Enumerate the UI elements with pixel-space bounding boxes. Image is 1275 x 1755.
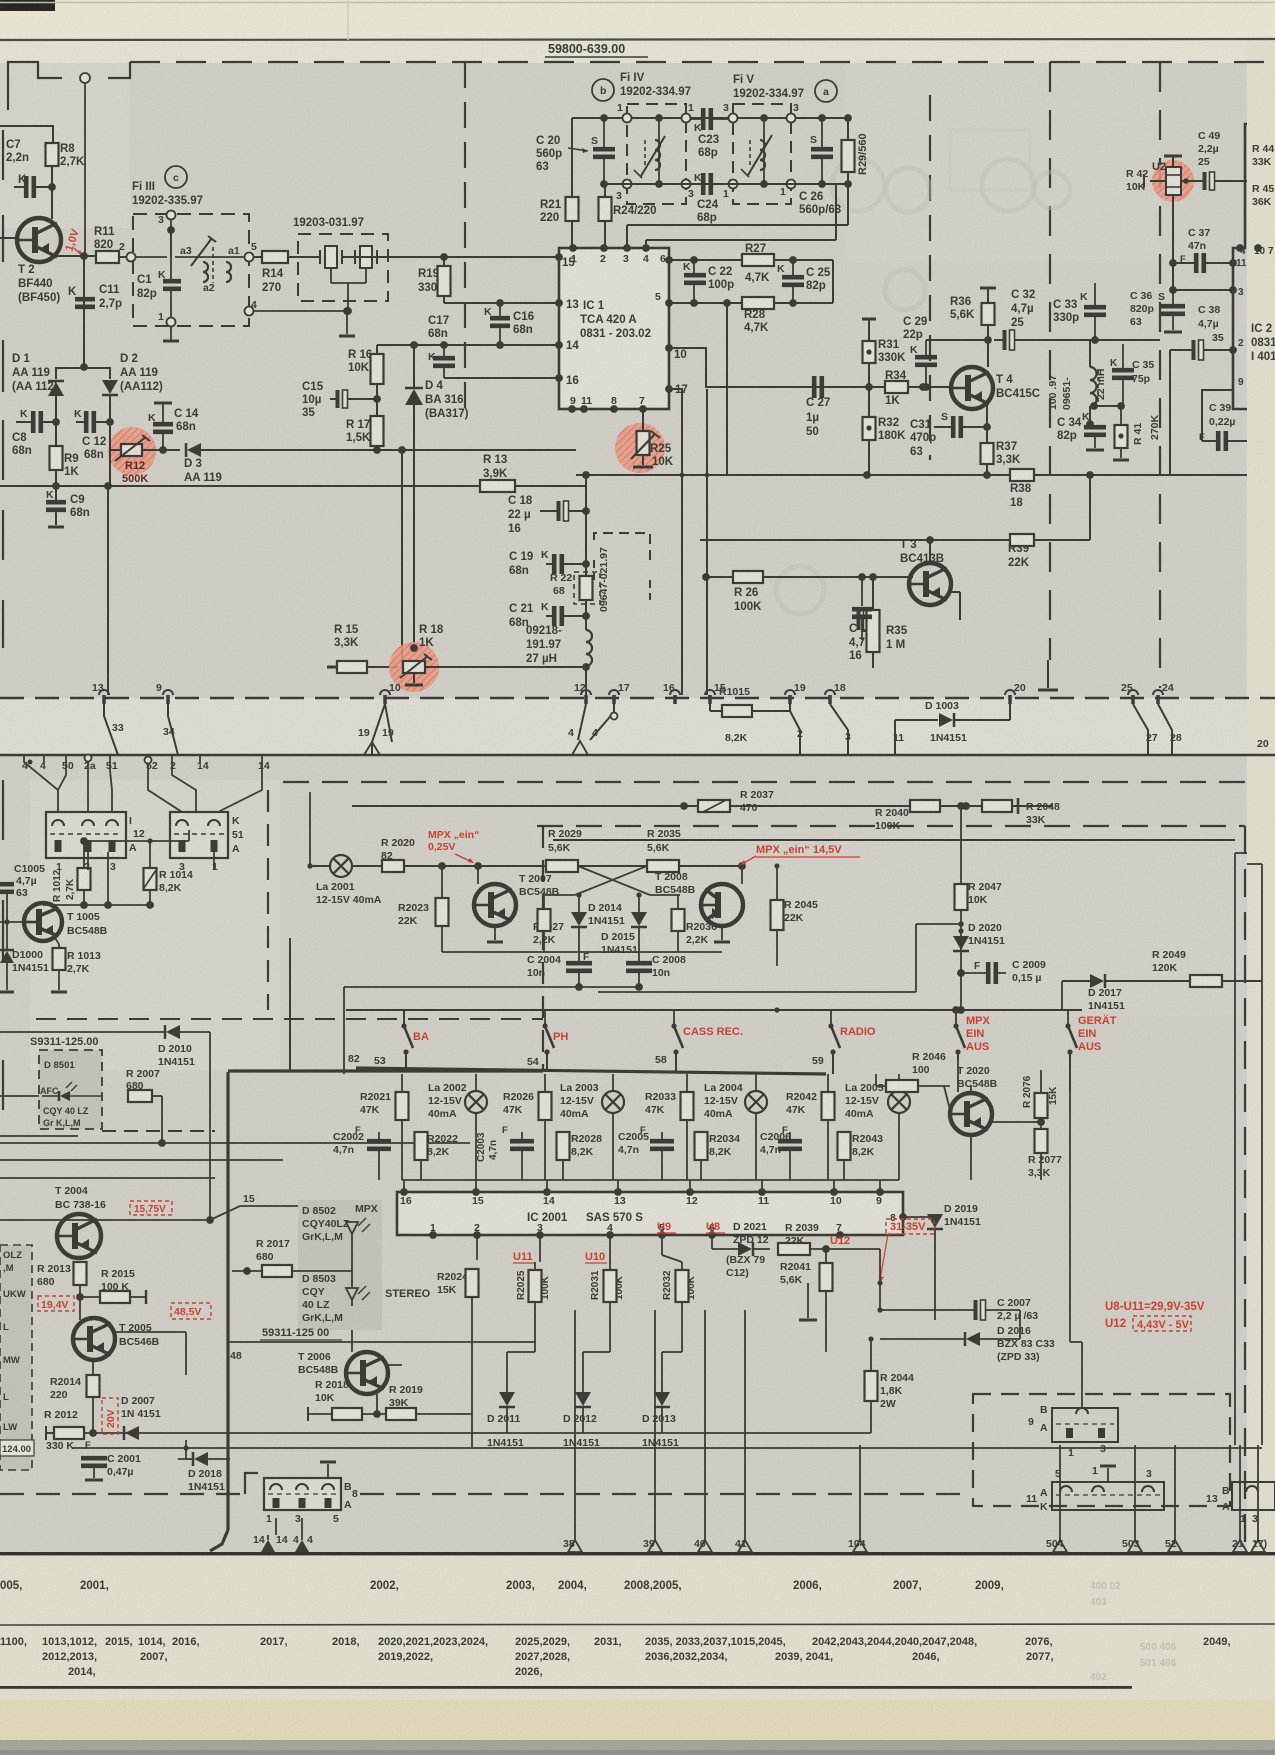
MPX bus down from R2037 node xyxy=(683,806,685,826)
filter Fi III dashed box xyxy=(133,214,249,326)
wire top bus y118 xyxy=(572,117,848,119)
wire R2020 bus feed xyxy=(245,865,247,867)
dashed separator x1050 xyxy=(1049,62,1051,660)
diode D 2011 xyxy=(499,1392,515,1406)
bottom thin line xyxy=(0,1624,1275,1625)
transistor T4 emitter column xyxy=(986,405,988,475)
terminal drop 21 xyxy=(1239,1445,1241,1540)
wires into drops xyxy=(574,1283,576,1310)
dashed box bottom right xyxy=(973,1394,1230,1506)
terminal 18 xyxy=(825,690,835,695)
dashed box coil 09218 xyxy=(594,533,650,563)
dashed separator x930 xyxy=(929,95,931,460)
wire y1342 xyxy=(228,1341,535,1343)
stereo dashed box top inner xyxy=(537,825,1245,827)
dashed line y1131 xyxy=(102,1130,215,1132)
terminal 24 xyxy=(1153,690,1163,695)
terminal drop 52 xyxy=(1174,1445,1176,1540)
terminal 17 xyxy=(609,690,619,695)
IC U2 right block xyxy=(1233,124,1247,409)
terminal 15 vertical fix xyxy=(706,475,708,695)
vertical x110 down xyxy=(109,422,111,486)
slant wires to connector 1 xyxy=(24,755,58,812)
diode D3 xyxy=(142,449,180,451)
resistor R37 xyxy=(981,443,994,464)
wire y450 to IC area xyxy=(402,449,576,451)
heavy bus vertical x228 xyxy=(226,1072,229,1530)
terminal drop 41 xyxy=(744,1310,746,1540)
wire pin7 down xyxy=(839,1235,841,1249)
terminal 12 xyxy=(581,690,591,695)
connector block I12A xyxy=(46,812,126,858)
vertical right columns xyxy=(1019,1310,1021,1339)
wire IC1 pin14 xyxy=(377,344,558,346)
IC U1 TCA420A xyxy=(559,248,669,409)
resistor R31 xyxy=(863,341,876,363)
resistor R36 xyxy=(980,287,996,290)
wire y486 long xyxy=(0,485,56,487)
red note 48,5V xyxy=(171,1303,211,1319)
schematic gray panel upper xyxy=(0,63,1247,698)
resistor R38 xyxy=(1010,469,1034,481)
optocoupler D8501 box xyxy=(39,1050,102,1129)
filter Fi V dashed box xyxy=(733,104,791,204)
T2020 vertical feeds xyxy=(957,1060,959,1093)
bus pin4 y240 xyxy=(645,240,647,248)
terminal 15 xyxy=(705,690,715,695)
terminal drop 104 xyxy=(859,1445,861,1540)
top dashed border xyxy=(130,61,1268,63)
C2009 connection fix xyxy=(961,972,988,974)
wire U2 down xyxy=(1172,195,1174,263)
vertical x1170 xyxy=(1169,350,1171,475)
vertical x727 R28 to wire475 xyxy=(726,303,728,475)
dashed bottom left section xyxy=(36,1018,543,1020)
terminal 13 xyxy=(99,690,109,695)
wire x352 down xyxy=(351,806,353,840)
left dashed page border xyxy=(2,130,4,180)
R35 top lead xyxy=(872,652,874,667)
diode D 2013 xyxy=(654,1392,670,1406)
resistor R24 xyxy=(599,197,612,221)
vertical x290 xyxy=(289,938,291,1070)
wire vertical x84 down to C11 xyxy=(83,256,85,367)
component U2 highlighted xyxy=(1152,160,1194,202)
ground pin T2020 column xyxy=(807,1283,809,1318)
resistor R8 xyxy=(46,143,59,166)
connector bus line y755 xyxy=(0,754,1275,757)
dashed bottom y1494 xyxy=(0,1493,240,1495)
potentiometer R18 highlighted xyxy=(389,642,439,692)
terminal 10 xyxy=(380,690,390,695)
wire IC1 pin16 xyxy=(444,377,558,379)
filter Fi V labels xyxy=(815,80,837,102)
switch BA feed xyxy=(403,1010,405,1026)
wire T2004 base y1220 xyxy=(0,1219,206,1221)
stereo left wiring xyxy=(0,1095,39,1097)
stereo dashed box top outer xyxy=(283,781,1245,783)
cross coupling wires xyxy=(578,866,650,895)
resistor R14 xyxy=(253,256,264,258)
left edge connector strip xyxy=(0,1245,32,1470)
bottom yellow band xyxy=(0,1700,1275,1755)
wire IC1 pin6 y260 xyxy=(669,259,742,261)
page fold line xyxy=(0,39,1275,40)
resistor R9 xyxy=(50,446,63,470)
resistor R29/560 xyxy=(842,140,855,172)
wire y475 long xyxy=(576,474,1247,476)
wire bottom right loop xyxy=(1090,474,1247,476)
long wire y1448 xyxy=(72,1447,1262,1449)
dashed separator x1160 xyxy=(1159,62,1161,688)
transistor T4 xyxy=(951,367,993,409)
bus wires stereo mid xyxy=(598,991,777,993)
terminal drop 504 xyxy=(1059,1445,1061,1540)
vertical x833 xyxy=(832,260,834,303)
filter Fi IV labels xyxy=(592,79,614,101)
Fi III pin4 wire xyxy=(253,310,347,312)
filter Fi IV dashed box xyxy=(627,104,686,204)
connector block bottom left xyxy=(245,1473,258,1494)
filter tap to ground xyxy=(330,268,332,283)
top black bar xyxy=(0,0,55,11)
resistor R32 xyxy=(863,417,876,440)
switch outputs down xyxy=(957,1060,959,1092)
terminal bar above U2 xyxy=(1164,155,1182,158)
vertical x1070 extension xyxy=(1069,1180,1071,1342)
terminal 25 xyxy=(1128,690,1138,695)
right cream margin xyxy=(1247,40,1275,1552)
terminal bar above R31 xyxy=(862,318,876,321)
IC U2001 SAS570S xyxy=(397,1192,903,1235)
resistor R28 xyxy=(742,297,774,309)
connector block K51A xyxy=(170,812,228,858)
terminal drop 503 xyxy=(1134,1445,1136,1540)
D8501 left wires xyxy=(0,1135,78,1137)
terminal 20 xyxy=(1005,690,1015,695)
long wire y1433 xyxy=(46,1432,871,1434)
light band terminal row xyxy=(0,698,1275,756)
vertical x402 from wire450 xyxy=(398,446,406,454)
lamp feed bus xyxy=(344,1068,356,1074)
ground x1048 xyxy=(1047,660,1049,688)
terminal 9 xyxy=(163,690,173,695)
bus y840 stereo xyxy=(553,839,1235,841)
emitter bus xyxy=(442,951,722,953)
wire filter out to R19 and IC1 xyxy=(356,256,558,258)
ceramic filter elements xyxy=(325,246,337,268)
bus wires y1143 y1160 y1178 xyxy=(0,1142,470,1144)
Fi III coil a2 xyxy=(203,262,208,272)
terminal drop 38 xyxy=(574,1310,576,1540)
stereo bottom-left vertical xyxy=(159,1018,161,1040)
bottom bus of filter row xyxy=(604,183,848,185)
diode D 2012 xyxy=(575,1392,591,1406)
bus pin3 y225 xyxy=(626,225,628,248)
terminal slant wires xyxy=(104,704,118,755)
T2020 base wire xyxy=(944,1086,950,1110)
circle c xyxy=(165,166,187,188)
wire top left xyxy=(0,126,53,143)
potentiometer R25 highlighted xyxy=(615,423,665,473)
wire loop left of D2017 xyxy=(1061,981,1063,1010)
dashed separator x465 xyxy=(464,62,466,410)
wire y905 xyxy=(43,904,150,906)
pin8 wire xyxy=(903,1216,935,1218)
left page dashed lower xyxy=(2,780,4,840)
terminal 16 xyxy=(670,690,680,695)
vertical x108 down to terminal 13 xyxy=(107,486,109,695)
terminal drop 39 xyxy=(654,1310,656,1540)
left border jog with node xyxy=(8,62,62,110)
stereo dashed box right xyxy=(1244,826,1246,1550)
schematic gray panel lower xyxy=(0,756,1247,1552)
red note 20V rotated xyxy=(102,1398,118,1434)
stereo dashed box left xyxy=(267,790,269,1010)
resistor R19 xyxy=(438,266,451,296)
wire y540 xyxy=(700,539,985,541)
wire pin10 to C27 R34 xyxy=(669,348,885,387)
bottom second thick line xyxy=(0,1686,1132,1689)
red note 15,75V xyxy=(130,1201,172,1215)
Fi IV internals xyxy=(658,118,660,184)
caps bottom bus xyxy=(579,986,639,988)
resistor R41 with labels xyxy=(1115,425,1128,448)
potentiometer R12 highlighted xyxy=(108,427,156,475)
section bottom dashed line xyxy=(0,697,1275,699)
terminal drop 40 xyxy=(704,1310,706,1540)
emitter loop wire to D2020 xyxy=(777,991,916,993)
terminal 19 xyxy=(785,690,795,695)
capacitor C28 fixed xyxy=(861,577,863,606)
terminal drop 17) xyxy=(1257,1445,1259,1540)
resistor R2048 xyxy=(982,800,1012,812)
dashed vertical x543 xyxy=(542,826,544,1069)
red note 19,4V xyxy=(38,1296,74,1311)
heavy switch bus xyxy=(356,1068,826,1074)
resistor R11 xyxy=(96,251,119,263)
optocoupler D8502 D8503 box xyxy=(298,1200,382,1330)
bottom separator thick line xyxy=(0,1552,1275,1555)
Fi V internals xyxy=(763,118,765,184)
wire R38 right to R39 column xyxy=(1034,474,1130,476)
wire to C36 xyxy=(1172,263,1174,290)
heavy bus horizontal y1071 xyxy=(228,1069,543,1072)
wire IC1 pin13 xyxy=(444,302,558,304)
bus above IC2001 xyxy=(402,1179,899,1181)
IC1 pin nodes xyxy=(555,253,563,261)
wire T2 emitter to R11 xyxy=(54,255,96,257)
wire y841 xyxy=(84,840,189,842)
wire C29 top y340 xyxy=(926,339,988,341)
transistor T2 xyxy=(17,218,61,262)
wire pin17 down xyxy=(669,389,682,695)
wire IC1 pin5 y303 xyxy=(669,302,742,304)
ghost circles xyxy=(832,159,884,211)
IC2001 pin nodes xyxy=(400,1188,408,1196)
